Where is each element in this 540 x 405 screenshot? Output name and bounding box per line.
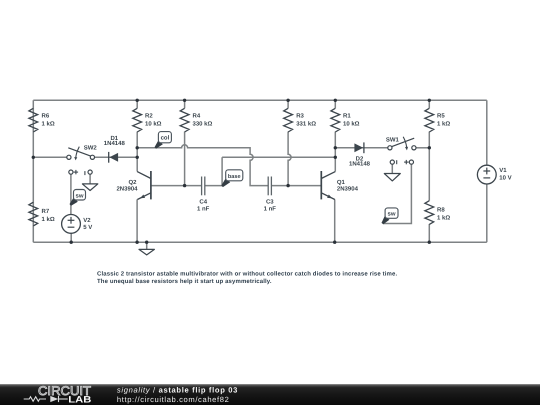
wire SW2 pos1 to V2 [70, 174, 72, 214]
wire R5 bottom to R8 top [428, 132, 430, 201]
wire D2 row [335, 147, 388, 149]
wire R3 bottom to Q1 base (hop over node B) [288, 132, 291, 186]
wire SW2 to D1 to Q2 collector [95, 156, 138, 158]
wire ground stem [146, 242, 148, 249]
switch SW1 (SPDT) [386, 136, 416, 150]
ground (SW2 position 2) [82, 184, 97, 191]
ground (SW1 position 1) [384, 174, 400, 181]
svg-text:V1: V1 [499, 167, 507, 174]
footer bar [0, 384, 540, 405]
wire C3 right to Q1 base [271, 185, 321, 187]
svg-text:1 kΩ: 1 kΩ [42, 120, 55, 127]
wire R3 top lead [287, 100, 289, 108]
resistor R2 10 k&#937; [133, 108, 162, 132]
wire Q2 emitter to ground rail [136, 199, 138, 242]
switch SW1 throw terminals | and + [390, 160, 413, 164]
wire R1 bottom to Q1 collector [334, 132, 336, 172]
svg-text:The unequal base resistors hel: The unequal base resistors help it start… [97, 278, 272, 285]
wire Q1 emitter to ground rail [334, 199, 336, 242]
svg-text:col: col [161, 135, 170, 142]
wire R8 bottom lead [428, 224, 430, 242]
ground (main rail) [139, 249, 154, 255]
svg-text:R5: R5 [437, 113, 445, 120]
resistor R6 1 k&#937; [29, 108, 55, 132]
resistor R4 330 k&#937; [180, 108, 212, 132]
svg-text:base: base [228, 173, 241, 180]
svg-text:1 nF: 1 nF [264, 205, 277, 212]
footer title text [117, 386, 238, 405]
voltage source V1 10V [477, 165, 511, 184]
svg-text:C3: C3 [266, 198, 274, 205]
svg-text:sw: sw [387, 212, 395, 218]
node col flag [155, 132, 172, 149]
wire top supply rail [33, 99, 487, 101]
transistor Q1 2N3904 (npn) [321, 171, 358, 200]
wire V2 bottom lead [70, 233, 72, 242]
wire R2 bottom to Q2 collector [136, 132, 138, 172]
svg-text:R3: R3 [296, 113, 304, 120]
svg-text:SW2: SW2 [84, 144, 98, 151]
wire right rail upper [486, 100, 488, 165]
svg-text:1 kΩ: 1 kΩ [437, 214, 450, 221]
wire left rail [32, 100, 34, 242]
svg-text:sw: sw [75, 193, 83, 199]
node col wire (collector row with hops to C3) [137, 145, 268, 186]
svg-text:10 kΩ: 10 kΩ [343, 120, 360, 127]
node sw flag (left) [70, 190, 86, 206]
svg-text:R4: R4 [193, 113, 201, 120]
svg-text:R7: R7 [42, 208, 50, 215]
resistor R3 331 k&#937; [284, 108, 317, 132]
svg-text:1 nF: 1 nF [197, 205, 210, 212]
svg-text:V2: V2 [83, 217, 91, 224]
switch SW2 throw terminals + and | [69, 170, 92, 175]
switch SW2 (SPDT) [67, 144, 98, 160]
svg-text:1 kΩ: 1 kΩ [42, 216, 55, 223]
svg-text:Q2: Q2 [128, 179, 137, 186]
capacitor C4 1nF [197, 177, 210, 213]
svg-text:R2: R2 [145, 113, 153, 120]
wire SW2 pos2 to ground [89, 174, 91, 184]
svg-text:Q1: Q1 [337, 179, 346, 186]
description text [97, 270, 397, 285]
svg-text:R6: R6 [42, 113, 50, 120]
svg-text:10 kΩ: 10 kΩ [145, 120, 162, 127]
svg-text:5 V: 5 V [83, 224, 92, 231]
svg-text:C4: C4 [199, 198, 207, 205]
svg-text:1 kΩ: 1 kΩ [437, 120, 450, 127]
svg-text:331 kΩ: 331 kΩ [296, 120, 316, 127]
wire node B row to Q1 collector [222, 156, 335, 158]
svg-text:2N3904: 2N3904 [116, 186, 138, 193]
diode D2 1N4148 [349, 142, 371, 167]
svg-text:Classic 2 transistor astable m: Classic 2 transistor astable multivibrat… [97, 270, 397, 277]
svg-text:1N4148: 1N4148 [104, 140, 126, 147]
svg-text:R8: R8 [437, 207, 445, 214]
svg-text:R1: R1 [343, 113, 351, 120]
wire Q2 base row to C4 left [151, 185, 202, 187]
wire R1 top lead [334, 100, 336, 108]
wire SW1 pos2 to sw flag [383, 164, 412, 223]
svg-text:signality / astable flip flop: signality / astable flip flop 03 [117, 386, 238, 395]
wire SW1 pos1 to ground [391, 164, 393, 173]
resistor R7 1 k&#937; [29, 202, 55, 226]
capacitor C3 1nF [264, 177, 277, 213]
wire SW2 row from left rail [33, 156, 67, 158]
wire R4 top lead [184, 100, 186, 108]
diode D1 1N4148 [104, 135, 126, 163]
svg-text:10 V: 10 V [499, 174, 511, 181]
wire C4 right to node B corner [205, 157, 222, 185]
wire right rail lower [486, 184, 488, 242]
svg-text:LAB: LAB [68, 395, 91, 405]
svg-text:2N3904: 2N3904 [337, 186, 359, 193]
transistor Q2 2N3904 (npn, mirrored) [116, 171, 150, 200]
svg-text:1N4148: 1N4148 [349, 160, 371, 167]
wire bottom ground rail [33, 241, 487, 243]
svg-text:330 kΩ: 330 kΩ [193, 120, 213, 127]
svg-text:SW1: SW1 [386, 136, 400, 143]
voltage source V2 5V [62, 215, 93, 234]
CircuitLab logo [24, 384, 92, 405]
resistor R1 10 k&#937; [331, 108, 360, 132]
node base flag [221, 170, 243, 187]
wire R4 bottom to Q2 base [184, 132, 186, 186]
svg-text:http://circuitlab.com/cahef82: http://circuitlab.com/cahef82 [117, 395, 230, 404]
wire R5 top lead [428, 100, 430, 108]
resistor R8 1 k&#937; [425, 201, 450, 225]
wire R2 top lead [136, 100, 138, 108]
wire SW1 to R5/R8 [416, 147, 429, 149]
resistor R5 1 k&#937; [425, 108, 450, 132]
node sw flag (right) [382, 208, 399, 224]
